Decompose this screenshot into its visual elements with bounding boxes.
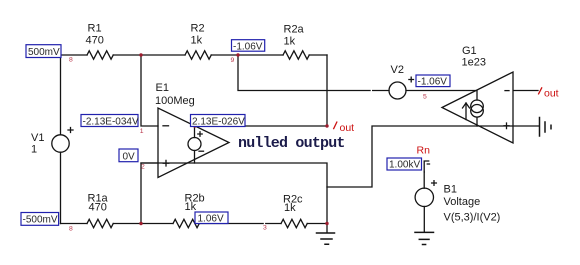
wire drop from R2 R2a junction down and right to V2 — [238, 55, 389, 91]
E1 minus input mark — [163, 125, 169, 127]
svg-text:V1: V1 — [31, 132, 44, 144]
voltage box -1.06V top — [232, 40, 265, 52]
junction dot R1 R2 rail — [139, 53, 142, 56]
G1 source pin top — [476, 91, 478, 101]
svg-text:1: 1 — [140, 128, 144, 135]
svg-text:R2a: R2a — [284, 24, 305, 36]
svg-text:470: 470 — [86, 35, 104, 47]
svg-text:5: 5 — [423, 94, 427, 101]
voltage box -500mV — [21, 213, 59, 226]
resistor R1 — [87, 51, 113, 59]
junction dot out node — [325, 124, 328, 127]
V1 plus sign — [68, 128, 73, 133]
voltage box 1.00kV — [387, 158, 422, 170]
E1 output pin top — [194, 126, 196, 138]
E1 plus input mark — [163, 160, 169, 166]
G1 plus input mark — [504, 123, 509, 129]
wire long lower net from E1 plus input rail to corner — [141, 163, 158, 224]
out flag at E1 output — [333, 122, 337, 130]
svg-text:G1: G1 — [462, 45, 477, 57]
svg-text:8: 8 — [69, 226, 73, 233]
wire stem to ground below R2c — [326, 224, 328, 233]
wire bottom rail between R1a and R2b — [113, 223, 173, 225]
junction dot R2 R2a drop — [236, 53, 239, 56]
svg-text:Rn: Rn — [417, 145, 431, 157]
svg-text:2.13E-026V: 2.13E-026V — [192, 117, 245, 128]
svg-text:1k: 1k — [185, 201, 197, 213]
wire top rail between R1 and R2 — [113, 54, 185, 56]
svg-text:8: 8 — [69, 57, 73, 64]
op-amp E1 triangle — [158, 108, 229, 178]
svg-text:V2: V2 — [391, 64, 404, 76]
wire from R2a corner down to out node — [326, 55, 328, 126]
svg-text:1.00kV: 1.00kV — [389, 160, 420, 171]
voltage box 500mV — [26, 45, 61, 58]
wire B1 bottom to ground — [423, 207, 425, 233]
svg-text:470: 470 — [89, 202, 107, 214]
svg-text:1.06V: 1.06V — [198, 214, 224, 225]
svg-text:-1.06V: -1.06V — [233, 42, 263, 53]
wire Rn flag down to B1 — [423, 172, 425, 188]
voltage box 0V — [119, 149, 138, 162]
voltage box -2.13E-034V — [81, 115, 138, 127]
wire bottom rail left segment — [61, 223, 88, 225]
wire V1 bottom to bottom rail — [60, 152, 62, 223]
ground right of G1 sideways — [540, 118, 552, 137]
net flag Rn hook — [424, 161, 429, 172]
svg-text:out: out — [340, 122, 355, 134]
wire bottom rail right segment — [307, 223, 327, 225]
E1 output pin bottom — [194, 151, 196, 164]
wire E1 output to out node — [195, 125, 328, 127]
E1 circle plus mark — [198, 132, 202, 136]
wire bottom rail between R2b and R2c — [199, 223, 281, 225]
voltage box 2.13E-026V — [191, 115, 246, 127]
ground below R2c — [317, 233, 335, 244]
svg-text:2: 2 — [141, 164, 145, 171]
junction dot bottom rail left — [139, 222, 142, 225]
out flag at G1 — [538, 87, 542, 94]
svg-text:R1: R1 — [88, 23, 102, 35]
svg-text:9: 9 — [231, 57, 235, 64]
wire top rail between R2 and R2a — [211, 54, 283, 56]
svg-text:1e23: 1e23 — [462, 57, 486, 69]
svg-text:500mV: 500mV — [28, 47, 60, 58]
svg-text:0V: 0V — [123, 152, 136, 163]
G1 internal arrow — [465, 103, 467, 120]
V2 plus sign — [409, 77, 414, 82]
wire top rail right segment to corner — [309, 54, 327, 56]
junction dot bottom rail right — [325, 222, 328, 225]
svg-text:1k: 1k — [284, 202, 296, 214]
svg-text:nulled output: nulled output — [238, 135, 345, 152]
wire left rail from 500mV down to V1 top — [60, 55, 62, 135]
E1 circle minus mark — [199, 150, 204, 152]
resistor R1a — [87, 219, 113, 227]
svg-text:3: 3 — [263, 225, 267, 232]
G1 minus input mark — [505, 90, 509, 92]
svg-text:-500mV: -500mV — [23, 215, 58, 226]
G1 source pin bottom — [476, 117, 478, 126]
svg-text:B1: B1 — [444, 184, 457, 196]
wire junction drop from top rail to E1 minus input — [141, 55, 158, 126]
wire top rail left segment — [61, 54, 88, 56]
E1 dependent source circle — [188, 138, 201, 151]
wire under E1 to right corner — [141, 163, 327, 224]
resistor R2b — [173, 219, 199, 227]
voltage box -1.06V at V2 — [416, 75, 450, 87]
pin gap V2 left lead — [371, 89, 372, 91]
svg-text:V(5,3)/I(V2): V(5,3)/I(V2) — [444, 212, 501, 224]
pin dot E1 output at label box — [194, 125, 197, 128]
svg-text:-2.13E-034V: -2.13E-034V — [83, 117, 139, 128]
vccs G1 triangle — [442, 72, 513, 143]
svg-text:Voltage: Voltage — [444, 196, 481, 208]
voltage source V1 — [52, 135, 69, 152]
svg-text:-1.06V: -1.06V — [418, 77, 448, 88]
resistor R2 — [185, 51, 211, 59]
wire G1 minus input to out flag — [514, 90, 538, 92]
voltage box 1.06V — [195, 212, 228, 224]
svg-text:E1: E1 — [156, 82, 169, 94]
svg-text:1k: 1k — [284, 36, 296, 48]
G1 dependent source circles — [471, 100, 484, 113]
svg-text:R2: R2 — [191, 23, 205, 35]
resistor R2a — [283, 51, 309, 59]
svg-text:out: out — [544, 88, 559, 100]
wire branch to B1 loop up and right to G1 plus input and ground — [327, 126, 539, 187]
pin gap R2c left lead — [264, 222, 265, 224]
voltage source V2 — [389, 82, 406, 99]
wire V2 right to G1 source pin — [406, 90, 477, 92]
resistor R2c — [281, 219, 307, 227]
svg-text:1: 1 — [31, 144, 37, 156]
svg-text:100Meg: 100Meg — [155, 95, 195, 107]
ground below B1 — [415, 232, 434, 244]
bv source B1 — [415, 188, 433, 206]
B1 plus sign — [432, 181, 437, 186]
svg-text:1k: 1k — [191, 35, 203, 47]
